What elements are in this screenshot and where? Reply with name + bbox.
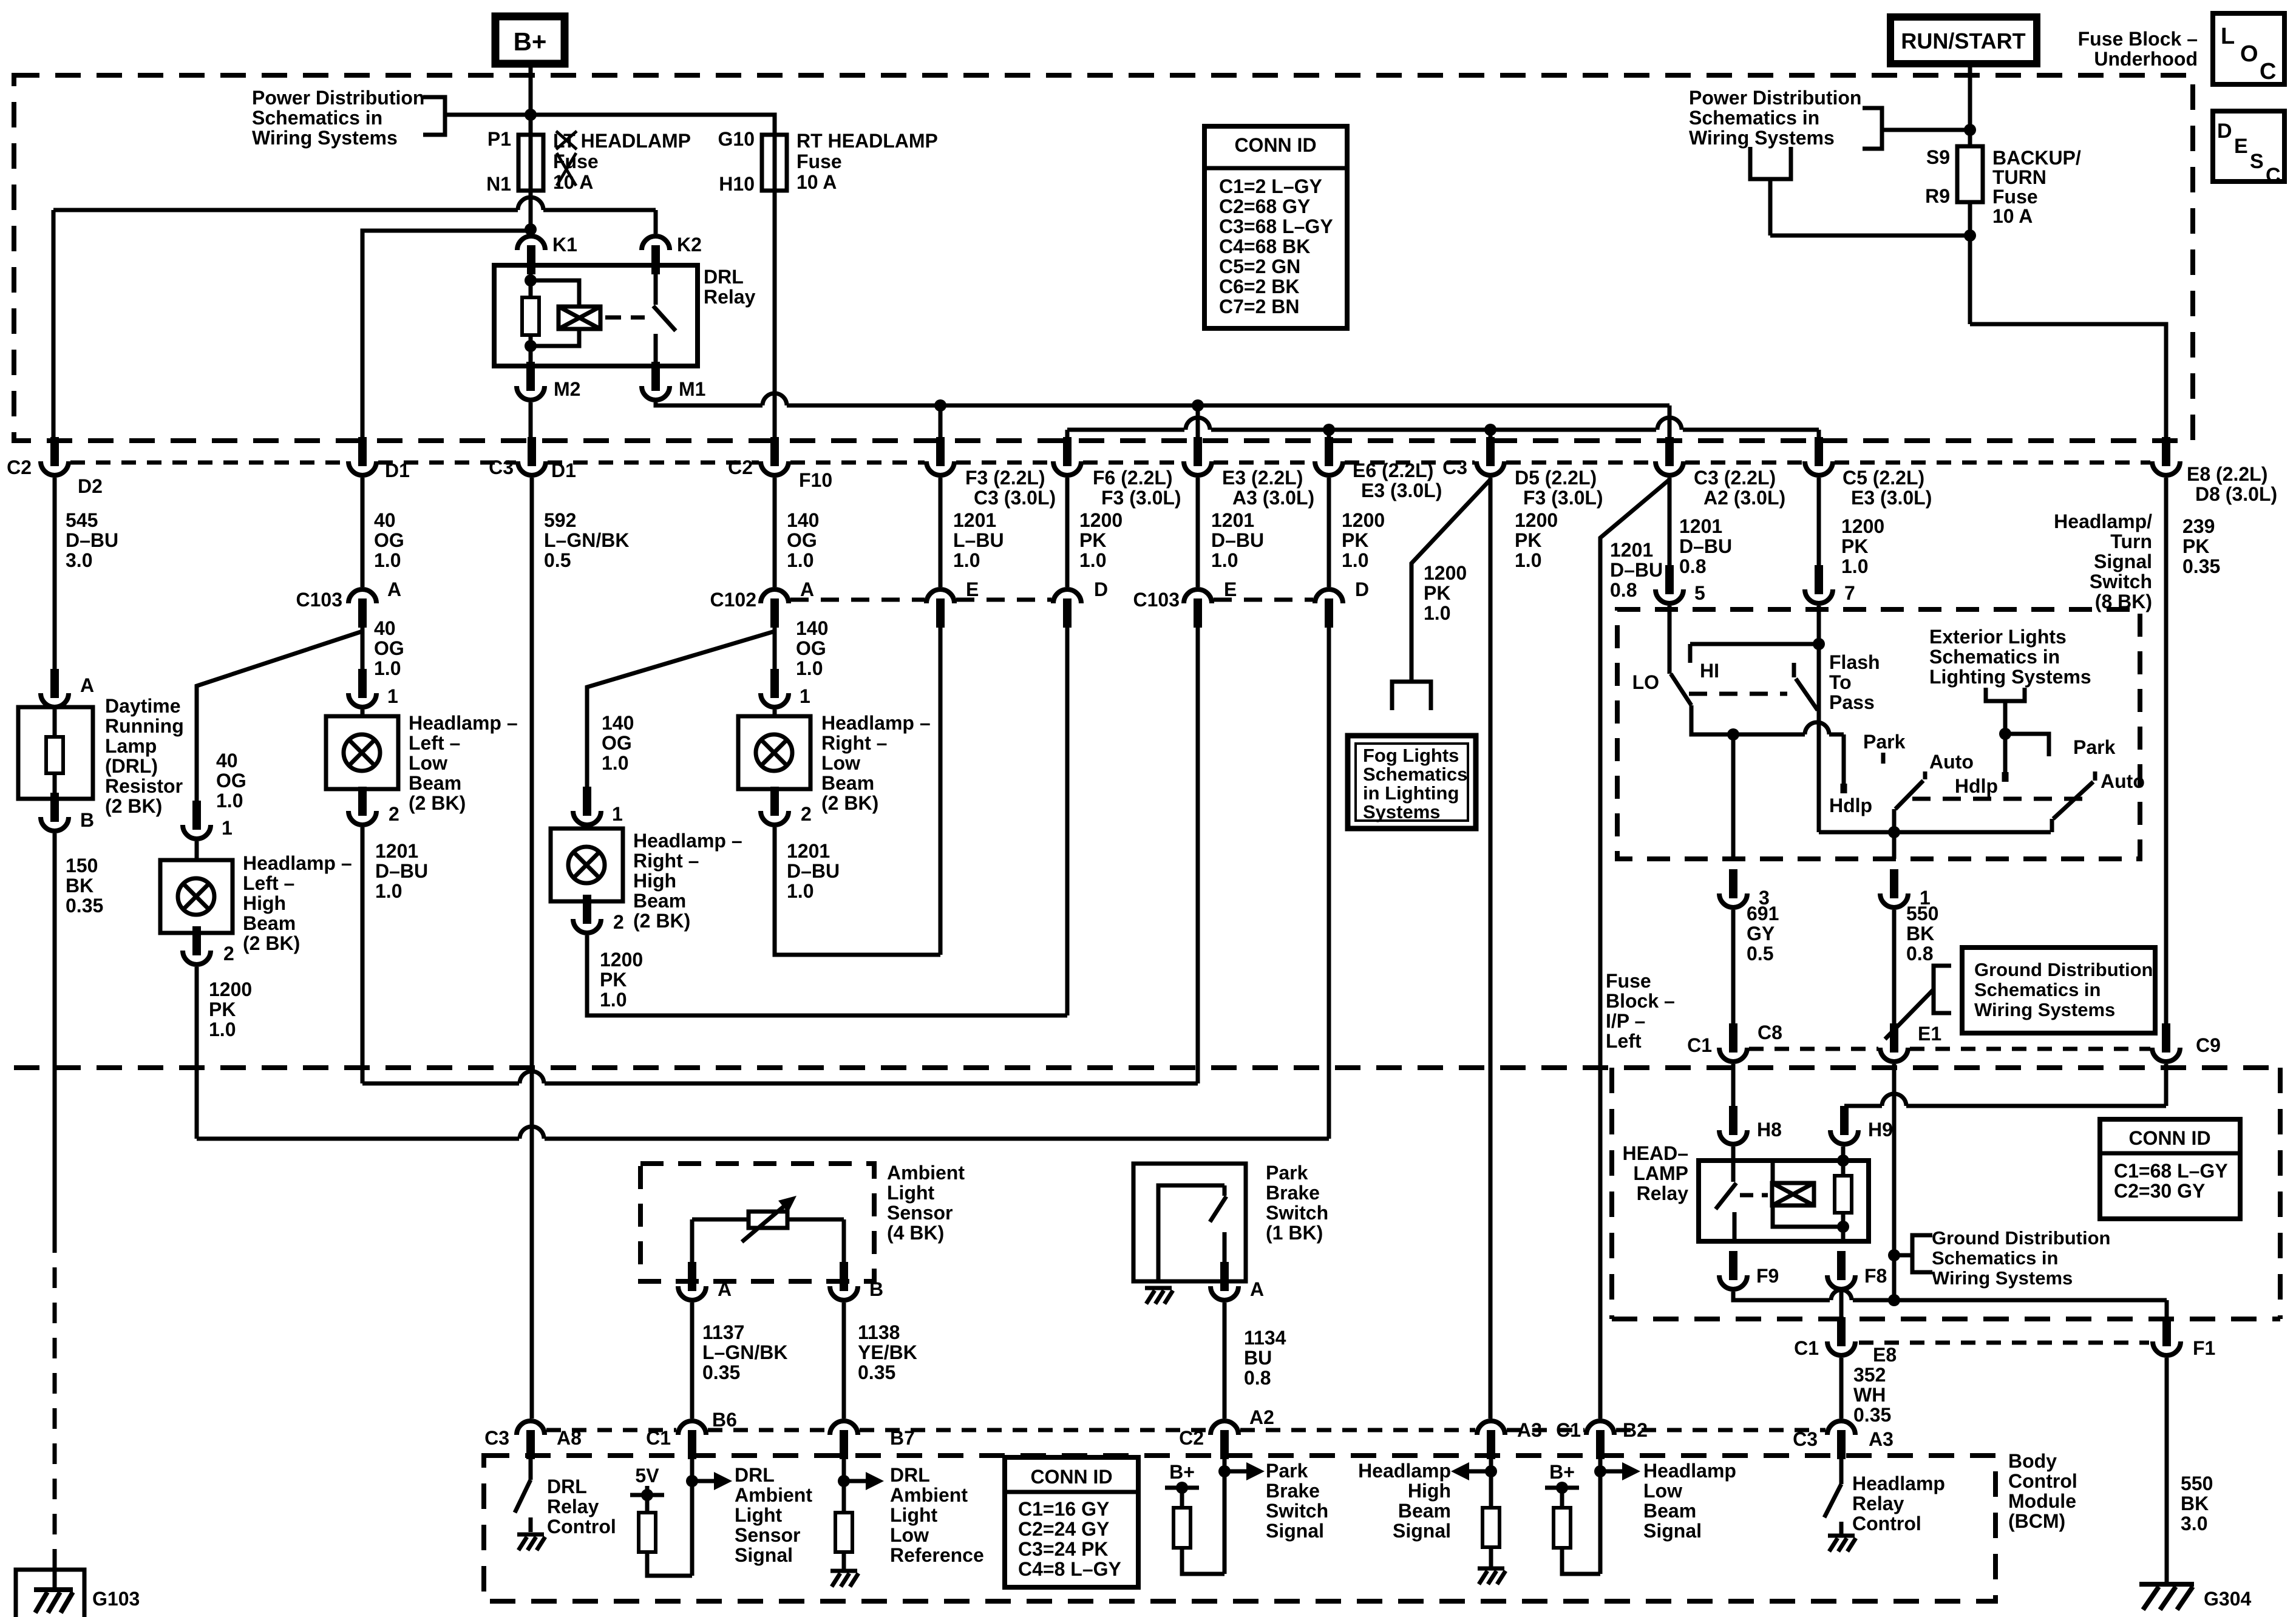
svg-text:E3 (3.0L): E3 (3.0L) — [1851, 487, 1932, 509]
svg-text:1.0: 1.0 — [374, 549, 401, 571]
svg-text:Sensor: Sensor — [735, 1524, 800, 1546]
svg-text:1.0: 1.0 — [600, 989, 627, 1011]
wire low beam signal from C3|A2 diagonal — [1600, 480, 1669, 1419]
svg-text:Control: Control — [2008, 1470, 2077, 1492]
connector C3|D5/F3 — [1486, 437, 1495, 466]
svg-text:CONN ID: CONN ID — [2128, 1127, 2210, 1149]
svg-text:1201: 1201 — [375, 840, 418, 862]
fuse P1/N1 LT HEADLAMP 10A — [529, 135, 533, 191]
connector C1|C8 — [1729, 1023, 1737, 1053]
blade headlamp relay — [1716, 1183, 1736, 1209]
svg-text:RT HEADLAMP: RT HEADLAMP — [796, 130, 938, 152]
BCM row dotted line — [546, 1428, 676, 1432]
svg-text:1200: 1200 — [1079, 509, 1123, 531]
svg-text:C3=24 PK: C3=24 PK — [1018, 1538, 1109, 1560]
svg-text:Control: Control — [547, 1516, 616, 1537]
resistor B7 load — [835, 1513, 852, 1552]
arrow DRL ambient light sensor signal — [692, 1479, 718, 1483]
wire M2 to C3|D1 connector — [529, 402, 533, 441]
wire M1 low beam feed line — [656, 402, 763, 405]
mech link dashed left bank — [1689, 692, 1787, 696]
RUN/START feed box — [1890, 17, 2037, 64]
blade Flash To Pass — [1796, 679, 1818, 710]
connector C2|A2 — [1211, 1421, 1238, 1435]
svg-text:Low: Low — [821, 752, 860, 774]
svg-text:7: 7 — [1844, 582, 1855, 604]
svg-text:550: 550 — [2181, 1473, 2213, 1494]
svg-text:(2 BK): (2 BK) — [105, 795, 162, 817]
svg-text:Schematics in: Schematics in — [252, 107, 382, 129]
node selector to pin1 — [1888, 826, 1900, 838]
node relay coil top — [525, 274, 537, 286]
svg-text:Wiring Systems: Wiring Systems — [252, 127, 398, 149]
svg-text:Relay: Relay — [1852, 1493, 1904, 1514]
svg-text:E: E — [1224, 578, 1237, 600]
node B2 — [1594, 1465, 1606, 1477]
svg-text:LO: LO — [1632, 671, 1659, 693]
svg-text:Fuse Block –: Fuse Block – — [2078, 28, 2198, 50]
switch contact DRL relay upper — [654, 265, 658, 305]
pin K2 of DRL relay — [642, 236, 670, 250]
ground B7 — [830, 1569, 857, 1573]
pin A ambient sensor — [688, 1262, 696, 1291]
node ground distribution lower — [1888, 1249, 1900, 1261]
mech link dashed headlamp relay — [1740, 1193, 1768, 1198]
svg-text:HI: HI — [1700, 660, 1719, 682]
node RUN/START junction — [1964, 124, 1976, 136]
svg-text:(4 BK): (4 BK) — [887, 1222, 944, 1244]
svg-text:OG: OG — [216, 770, 246, 792]
wire 150 BK down — [53, 833, 57, 1232]
node relay coil bottom — [525, 340, 537, 352]
svg-text:Sensor: Sensor — [887, 1202, 953, 1224]
svg-text:Headlamp –: Headlamp – — [409, 712, 518, 734]
DESC reference box — [2213, 111, 2284, 181]
connector A3 (bcm) — [1477, 1421, 1505, 1435]
coil bottom branch — [1773, 1205, 1843, 1227]
park brake switch internals — [1158, 1185, 1224, 1281]
svg-text:5: 5 — [1694, 582, 1705, 604]
svg-text:E: E — [2234, 135, 2248, 158]
svg-text:Brake: Brake — [1266, 1480, 1320, 1502]
wire 1200 PK riser to C102 D — [1065, 615, 1070, 1015]
svg-text:E6 (2.2L): E6 (2.2L) — [1353, 459, 1433, 481]
svg-text:Brake: Brake — [1266, 1182, 1320, 1204]
svg-text:A8: A8 — [557, 1427, 582, 1449]
svg-text:Systems: Systems — [1363, 801, 1441, 822]
svg-text:R9: R9 — [1925, 185, 1950, 207]
svg-text:G10: G10 — [718, 128, 755, 150]
DRL resistor box — [53, 710, 57, 737]
connector C1|B6 — [678, 1421, 706, 1435]
svg-text:0.8: 0.8 — [1610, 579, 1637, 601]
wire F8 down to C1|E8 — [1839, 1292, 1844, 1321]
wire B2 low beam signal — [1598, 1456, 1603, 1574]
svg-text:C3: C3 — [489, 456, 514, 478]
svg-text:(2 BK): (2 BK) — [243, 932, 300, 954]
wire B to B7 — [842, 1303, 846, 1419]
svg-text:Signal: Signal — [1393, 1520, 1451, 1542]
node A2 — [1218, 1465, 1231, 1477]
svg-text:Auto: Auto — [1929, 751, 1974, 773]
bracket to ground distribution box — [1885, 989, 1934, 1039]
svg-text:To: To — [1829, 671, 1852, 693]
svg-text:C3=68 L–GY: C3=68 L–GY — [1219, 215, 1333, 237]
node E3 drop — [1192, 399, 1204, 412]
wire pin1 drop — [1892, 832, 1897, 859]
svg-text:1200: 1200 — [209, 978, 252, 1000]
wire C102 down to right low beam — [773, 615, 777, 670]
svg-text:Schematics in: Schematics in — [1689, 107, 1819, 129]
svg-text:Relay: Relay — [1637, 1182, 1689, 1204]
svg-text:A: A — [387, 578, 401, 600]
svg-text:140: 140 — [796, 617, 828, 639]
wire HI bracket — [1817, 606, 1821, 832]
svg-text:Signal: Signal — [735, 1544, 793, 1566]
svg-text:1: 1 — [387, 685, 398, 707]
lamp headlamp right low beam — [773, 710, 777, 716]
svg-text:545: 545 — [66, 509, 98, 531]
wire pin3 to C8 — [1731, 910, 1736, 1029]
svg-text:140: 140 — [787, 509, 819, 531]
svg-text:PK: PK — [600, 969, 627, 991]
ambient light sensor dashed box — [640, 1164, 874, 1281]
DRL relay box — [494, 265, 698, 366]
svg-text:M2: M2 — [554, 378, 580, 400]
svg-text:D: D — [1355, 578, 1369, 600]
svg-text:C3: C3 — [1793, 1428, 1818, 1450]
svg-text:D2: D2 — [78, 475, 103, 497]
svg-text:K2: K2 — [677, 234, 702, 256]
svg-text:CONN ID: CONN ID — [1234, 134, 1316, 156]
svg-text:RUN/START: RUN/START — [1901, 29, 2025, 53]
svg-text:O: O — [2240, 41, 2258, 67]
svg-text:Headlamp/: Headlamp/ — [2054, 510, 2152, 532]
pin H9 headlamp relay — [1840, 1106, 1849, 1135]
pin B DRL resistor — [50, 799, 59, 808]
ground G103 — [53, 1563, 57, 1588]
svg-text:C9: C9 — [2196, 1034, 2221, 1056]
row2 dashed links — [790, 598, 925, 602]
svg-text:A: A — [1250, 1278, 1264, 1300]
svg-text:OG: OG — [374, 637, 404, 659]
svg-text:3.0: 3.0 — [2181, 1513, 2207, 1534]
svg-text:OG: OG — [787, 529, 817, 551]
exterior lights bracket — [1986, 688, 2025, 701]
connector C3|D1 — [528, 437, 536, 466]
wire C2 feed horizontal with hop over N1 wire — [53, 208, 518, 212]
svg-text:C4=68 BK: C4=68 BK — [1219, 236, 1310, 257]
svg-text:C1: C1 — [646, 1427, 671, 1449]
svg-text:D–BU: D–BU — [787, 860, 840, 882]
wire K1 into relay — [529, 265, 533, 297]
ground G103 bracket — [16, 1570, 84, 1617]
svg-text:Wiring Systems: Wiring Systems — [1689, 127, 1835, 149]
svg-text:D: D — [2217, 120, 2232, 143]
svg-text:Headlamp: Headlamp — [1643, 1460, 1736, 1482]
svg-text:1201: 1201 — [1211, 509, 1254, 531]
wire pin3 drop — [1731, 734, 1736, 859]
wire F9 to ground line — [1733, 1292, 1830, 1300]
node B+ junction — [525, 109, 537, 121]
svg-text:K1: K1 — [552, 234, 577, 256]
fuse S9/R9 BACKUP/TURN 10A — [1957, 146, 1983, 202]
svg-text:Low: Low — [890, 1524, 929, 1546]
svg-text:Hdlp: Hdlp — [1829, 795, 1872, 816]
svg-text:GY: GY — [1747, 923, 1775, 944]
fuse block I/P dashed line — [14, 1065, 2280, 1070]
connector E6/E3 — [1325, 437, 1333, 466]
svg-text:E3 (2.2L): E3 (2.2L) — [1222, 467, 1303, 489]
fuse block I/P right compartment dashed — [2278, 1068, 2283, 1319]
pin 2 headlamp right low beam — [770, 789, 779, 802]
svg-text:D5 (2.2L): D5 (2.2L) — [1515, 467, 1597, 489]
coil headlamp relay — [1772, 1183, 1814, 1205]
svg-text:D–BU: D–BU — [1610, 559, 1663, 581]
svg-text:Ambient: Ambient — [735, 1484, 812, 1506]
connector E3/A3 — [1194, 437, 1202, 466]
svg-text:(DRL): (DRL) — [105, 755, 158, 777]
arrow headlamp low beam signal — [1600, 1470, 1626, 1474]
svg-text:B2: B2 — [1623, 1419, 1648, 1441]
photo resistor ambient sensor — [692, 1218, 749, 1222]
svg-text:2: 2 — [389, 803, 399, 825]
park brake switch box — [1133, 1164, 1246, 1281]
node E1 ground junction — [1888, 1294, 1900, 1306]
wire high beam feed line from C5 — [1065, 430, 1070, 441]
svg-text:Low: Low — [1643, 1480, 1682, 1502]
svg-text:TURN: TURN — [1992, 166, 2046, 188]
wire B6 sensor signal — [690, 1456, 695, 1576]
svg-text:(BCM): (BCM) — [2008, 1510, 2065, 1532]
wire 1201 L-BU riser to C102 E — [939, 615, 943, 955]
mech link dashed right bank — [1912, 797, 2088, 801]
ground DRL relay control — [517, 1533, 544, 1537]
CONN ID table bottom — [1005, 1457, 1138, 1587]
svg-text:C: C — [2266, 164, 2281, 187]
node A3 — [1485, 1465, 1497, 1477]
svg-text:A: A — [80, 674, 94, 696]
svg-text:Fuse: Fuse — [1606, 970, 1651, 992]
pin 2 headlamp left low beam — [358, 789, 367, 802]
bracket power distribution left — [423, 97, 445, 135]
svg-text:C3: C3 — [1442, 456, 1467, 478]
svg-text:D1: D1 — [551, 459, 576, 481]
svg-text:Beam: Beam — [409, 772, 461, 794]
svg-text:F3 (3.0L): F3 (3.0L) — [1523, 487, 1603, 509]
lamp headlamp left high beam — [195, 841, 199, 860]
connector C103|A left — [348, 589, 376, 603]
pin 5 connector — [1665, 565, 1674, 594]
svg-text:1200: 1200 — [1841, 515, 1884, 537]
svg-text:Headlamp –: Headlamp – — [821, 712, 931, 734]
wire drop to D5 connector — [1489, 430, 1493, 441]
svg-text:1200: 1200 — [1424, 562, 1467, 584]
svg-text:Wiring Systems: Wiring Systems — [1974, 999, 2115, 1020]
bracket power distribution right upper — [1863, 108, 1882, 149]
svg-text:Fuse: Fuse — [1992, 186, 2038, 208]
svg-text:B6: B6 — [712, 1409, 737, 1431]
node B7 — [838, 1475, 850, 1487]
wire H9 into relay — [1841, 1147, 1846, 1176]
svg-text:Body: Body — [2008, 1450, 2057, 1472]
svg-text:1.0: 1.0 — [1079, 549, 1106, 571]
svg-text:1138: 1138 — [858, 1321, 900, 1343]
svg-text:Schematics in: Schematics in — [1929, 646, 2060, 668]
svg-text:Turn: Turn — [2110, 531, 2152, 552]
svg-text:D1: D1 — [385, 459, 410, 481]
arrow headlamp high beam signal — [1466, 1470, 1491, 1474]
pin 7 connector — [1815, 565, 1823, 594]
svg-text:592: 592 — [544, 509, 576, 531]
wire A3 high beam signal — [1489, 1456, 1493, 1508]
pin K1 of DRL relay — [517, 236, 545, 250]
node relay bottom — [1837, 1221, 1849, 1233]
svg-text:1.0: 1.0 — [1211, 549, 1238, 571]
svg-text:C8: C8 — [1758, 1022, 1782, 1043]
svg-text:Beam: Beam — [821, 772, 874, 794]
wire resistor to bottom node — [529, 335, 533, 366]
node B6 signal — [686, 1475, 698, 1487]
svg-text:Beam: Beam — [243, 912, 296, 934]
node LO output to pin3 — [1727, 728, 1739, 741]
wire lower bracket to fuse output node — [1770, 234, 1970, 238]
svg-text:1.0: 1.0 — [796, 657, 823, 679]
headlamp switch dashed box — [1617, 609, 2140, 859]
BCM dashed box — [484, 1456, 1995, 1601]
connector C1|E8 — [1837, 1317, 1846, 1346]
svg-text:H8: H8 — [1757, 1119, 1782, 1141]
wire drop to E3 connector — [1196, 405, 1200, 441]
svg-text:Low: Low — [409, 752, 447, 774]
svg-text:Underhood: Underhood — [2094, 48, 2198, 70]
svg-text:Fuse: Fuse — [796, 151, 842, 172]
lamp headlamp right high beam — [585, 827, 589, 829]
connector D1 (drl) — [358, 437, 367, 466]
bracket power distribution right lower — [1750, 147, 1791, 179]
svg-text:40: 40 — [216, 750, 238, 771]
wire right high beam return — [587, 935, 1067, 1015]
svg-text:0.35: 0.35 — [66, 895, 103, 917]
svg-text:Beam: Beam — [633, 890, 686, 912]
svg-text:1: 1 — [800, 685, 810, 707]
wire C1|E8 down — [1839, 1358, 1844, 1419]
svg-text:Park: Park — [1266, 1162, 1308, 1184]
blade LO — [1671, 674, 1691, 705]
svg-text:F1: F1 — [2193, 1337, 2215, 1359]
svg-text:C2: C2 — [7, 456, 32, 478]
CONN ID table right — [2100, 1119, 2240, 1219]
svg-text:Headlamp –: Headlamp – — [243, 852, 352, 874]
svg-text:A3 (3.0L): A3 (3.0L) — [1232, 487, 1314, 509]
connector C3|A8 — [517, 1421, 545, 1435]
wire F1 down to G304 — [2165, 1358, 2169, 1578]
wire H10 fuse down to C2|F10 connector — [773, 191, 777, 441]
off-page bracket fog lights — [1392, 682, 1431, 710]
svg-text:Signal: Signal — [1643, 1520, 1702, 1542]
svg-text:Running: Running — [105, 715, 184, 737]
ground headlamp relay control — [1828, 1534, 1855, 1538]
svg-text:PK: PK — [1079, 529, 1106, 551]
wire diagonal to left high beam — [197, 631, 362, 805]
wire RUN/START down — [1968, 64, 1972, 146]
pin F8 headlamp relay — [1837, 1251, 1846, 1280]
wire fuse to E8 connector — [1970, 324, 2166, 441]
wire drop to E6 connector — [1327, 430, 1331, 441]
connector E8/D8 — [2162, 437, 2170, 466]
svg-text:0.8: 0.8 — [1244, 1367, 1271, 1389]
blade Auto left — [1895, 781, 1923, 809]
I/P lower dotted row — [1859, 1341, 2149, 1345]
svg-text:1.0: 1.0 — [1841, 555, 1868, 577]
connector F6/F3 — [1063, 437, 1072, 466]
wire A2 park brake signal — [1223, 1456, 1227, 1574]
connector row dotted line — [70, 461, 347, 465]
connector C102 D — [1053, 589, 1081, 603]
svg-text:2: 2 — [223, 943, 234, 964]
wire diagonal to right high beam — [587, 631, 775, 787]
svg-text:PK: PK — [1424, 582, 1450, 604]
node F3 drop — [934, 399, 946, 412]
svg-text:OG: OG — [374, 529, 404, 551]
connector C103|D — [1315, 589, 1343, 603]
pin 1 headlamp left low beam — [358, 669, 367, 698]
wire low beam feed down to C3|A2 connector — [1668, 405, 1672, 441]
svg-text:1201: 1201 — [953, 509, 996, 531]
svg-text:1201: 1201 — [787, 840, 830, 862]
svg-text:Control: Control — [1852, 1513, 1921, 1534]
svg-text:S9: S9 — [1926, 146, 1950, 168]
contact Hdlp right — [2003, 734, 2008, 772]
svg-text:Right –: Right – — [821, 732, 887, 754]
svg-text:Resistor: Resistor — [105, 775, 183, 797]
svg-text:A: A — [800, 578, 814, 600]
svg-text:(1 BK): (1 BK) — [1266, 1222, 1323, 1244]
svg-text:691: 691 — [1747, 903, 1779, 924]
svg-text:A2: A2 — [1249, 1406, 1274, 1428]
wire pin5 to LO contact — [1668, 606, 1672, 668]
svg-text:1: 1 — [612, 803, 623, 825]
svg-text:BK: BK — [66, 875, 93, 897]
wire pin1 to E1 — [1892, 910, 1897, 1029]
svg-text:0.35: 0.35 — [702, 1361, 740, 1383]
svg-text:1201: 1201 — [1610, 539, 1653, 561]
pin 1 headlamp right low beam — [770, 669, 779, 698]
svg-text:M1: M1 — [679, 378, 705, 400]
svg-text:550: 550 — [1906, 903, 1938, 924]
svg-text:High: High — [633, 870, 676, 892]
resistor DRL relay — [522, 297, 539, 335]
connector C1|B2 — [1586, 1421, 1614, 1435]
svg-text:Daytime: Daytime — [105, 695, 181, 717]
resistor 5V pullup — [645, 1495, 650, 1513]
wire bracket to RUN/START node — [1882, 128, 1970, 132]
svg-text:Light: Light — [887, 1182, 935, 1204]
wire D5 connector diagonal to fog lights — [1411, 480, 1490, 682]
svg-text:Light: Light — [890, 1504, 938, 1526]
svg-text:Exterior Lights: Exterior Lights — [1929, 626, 2067, 648]
svg-text:N1: N1 — [486, 173, 511, 195]
wire E1 down — [1892, 1064, 1897, 1300]
svg-text:239: 239 — [2182, 515, 2215, 537]
wire C103 down to left low beam — [361, 615, 365, 670]
LOC reference box — [2213, 13, 2284, 84]
switch blade DRL relay — [653, 306, 676, 331]
svg-text:Left –: Left – — [409, 732, 460, 754]
pin M2 of DRL relay — [526, 362, 535, 391]
svg-text:1.0: 1.0 — [1342, 549, 1368, 571]
svg-text:WH: WH — [1853, 1384, 1886, 1406]
